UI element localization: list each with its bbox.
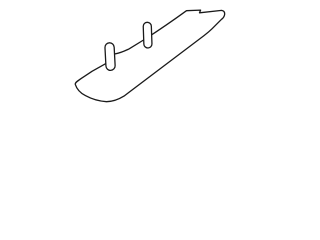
stud 2 (right peg) — [143, 22, 152, 48]
molding body outline — [75, 10, 224, 102]
part line-art: molding with two mounting studs — [0, 0, 300, 114]
stud 1 (left peg) — [105, 43, 116, 71]
